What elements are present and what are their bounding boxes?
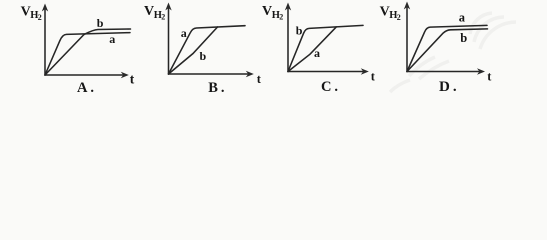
svg-text:b: b bbox=[296, 23, 303, 37]
svg-text:b: b bbox=[200, 49, 207, 63]
svg-text:a: a bbox=[181, 26, 187, 40]
svg-text:2: 2 bbox=[279, 13, 283, 22]
svg-text:2: 2 bbox=[38, 13, 42, 22]
svg-text:a: a bbox=[109, 32, 115, 46]
svg-text:V: V bbox=[144, 4, 154, 19]
svg-text:a: a bbox=[314, 46, 320, 60]
svg-text:A .: A . bbox=[77, 80, 94, 96]
svg-text:a: a bbox=[459, 11, 466, 25]
svg-text:C .: C . bbox=[321, 79, 338, 95]
svg-text:b: b bbox=[97, 16, 104, 30]
svg-text:V: V bbox=[262, 4, 272, 19]
svg-text:t: t bbox=[130, 71, 135, 86]
svg-text:b: b bbox=[460, 31, 467, 45]
svg-text:B .: B . bbox=[208, 80, 224, 96]
svg-text:2: 2 bbox=[397, 13, 401, 22]
svg-text:D .: D . bbox=[439, 79, 457, 95]
svg-text:2: 2 bbox=[161, 13, 165, 22]
